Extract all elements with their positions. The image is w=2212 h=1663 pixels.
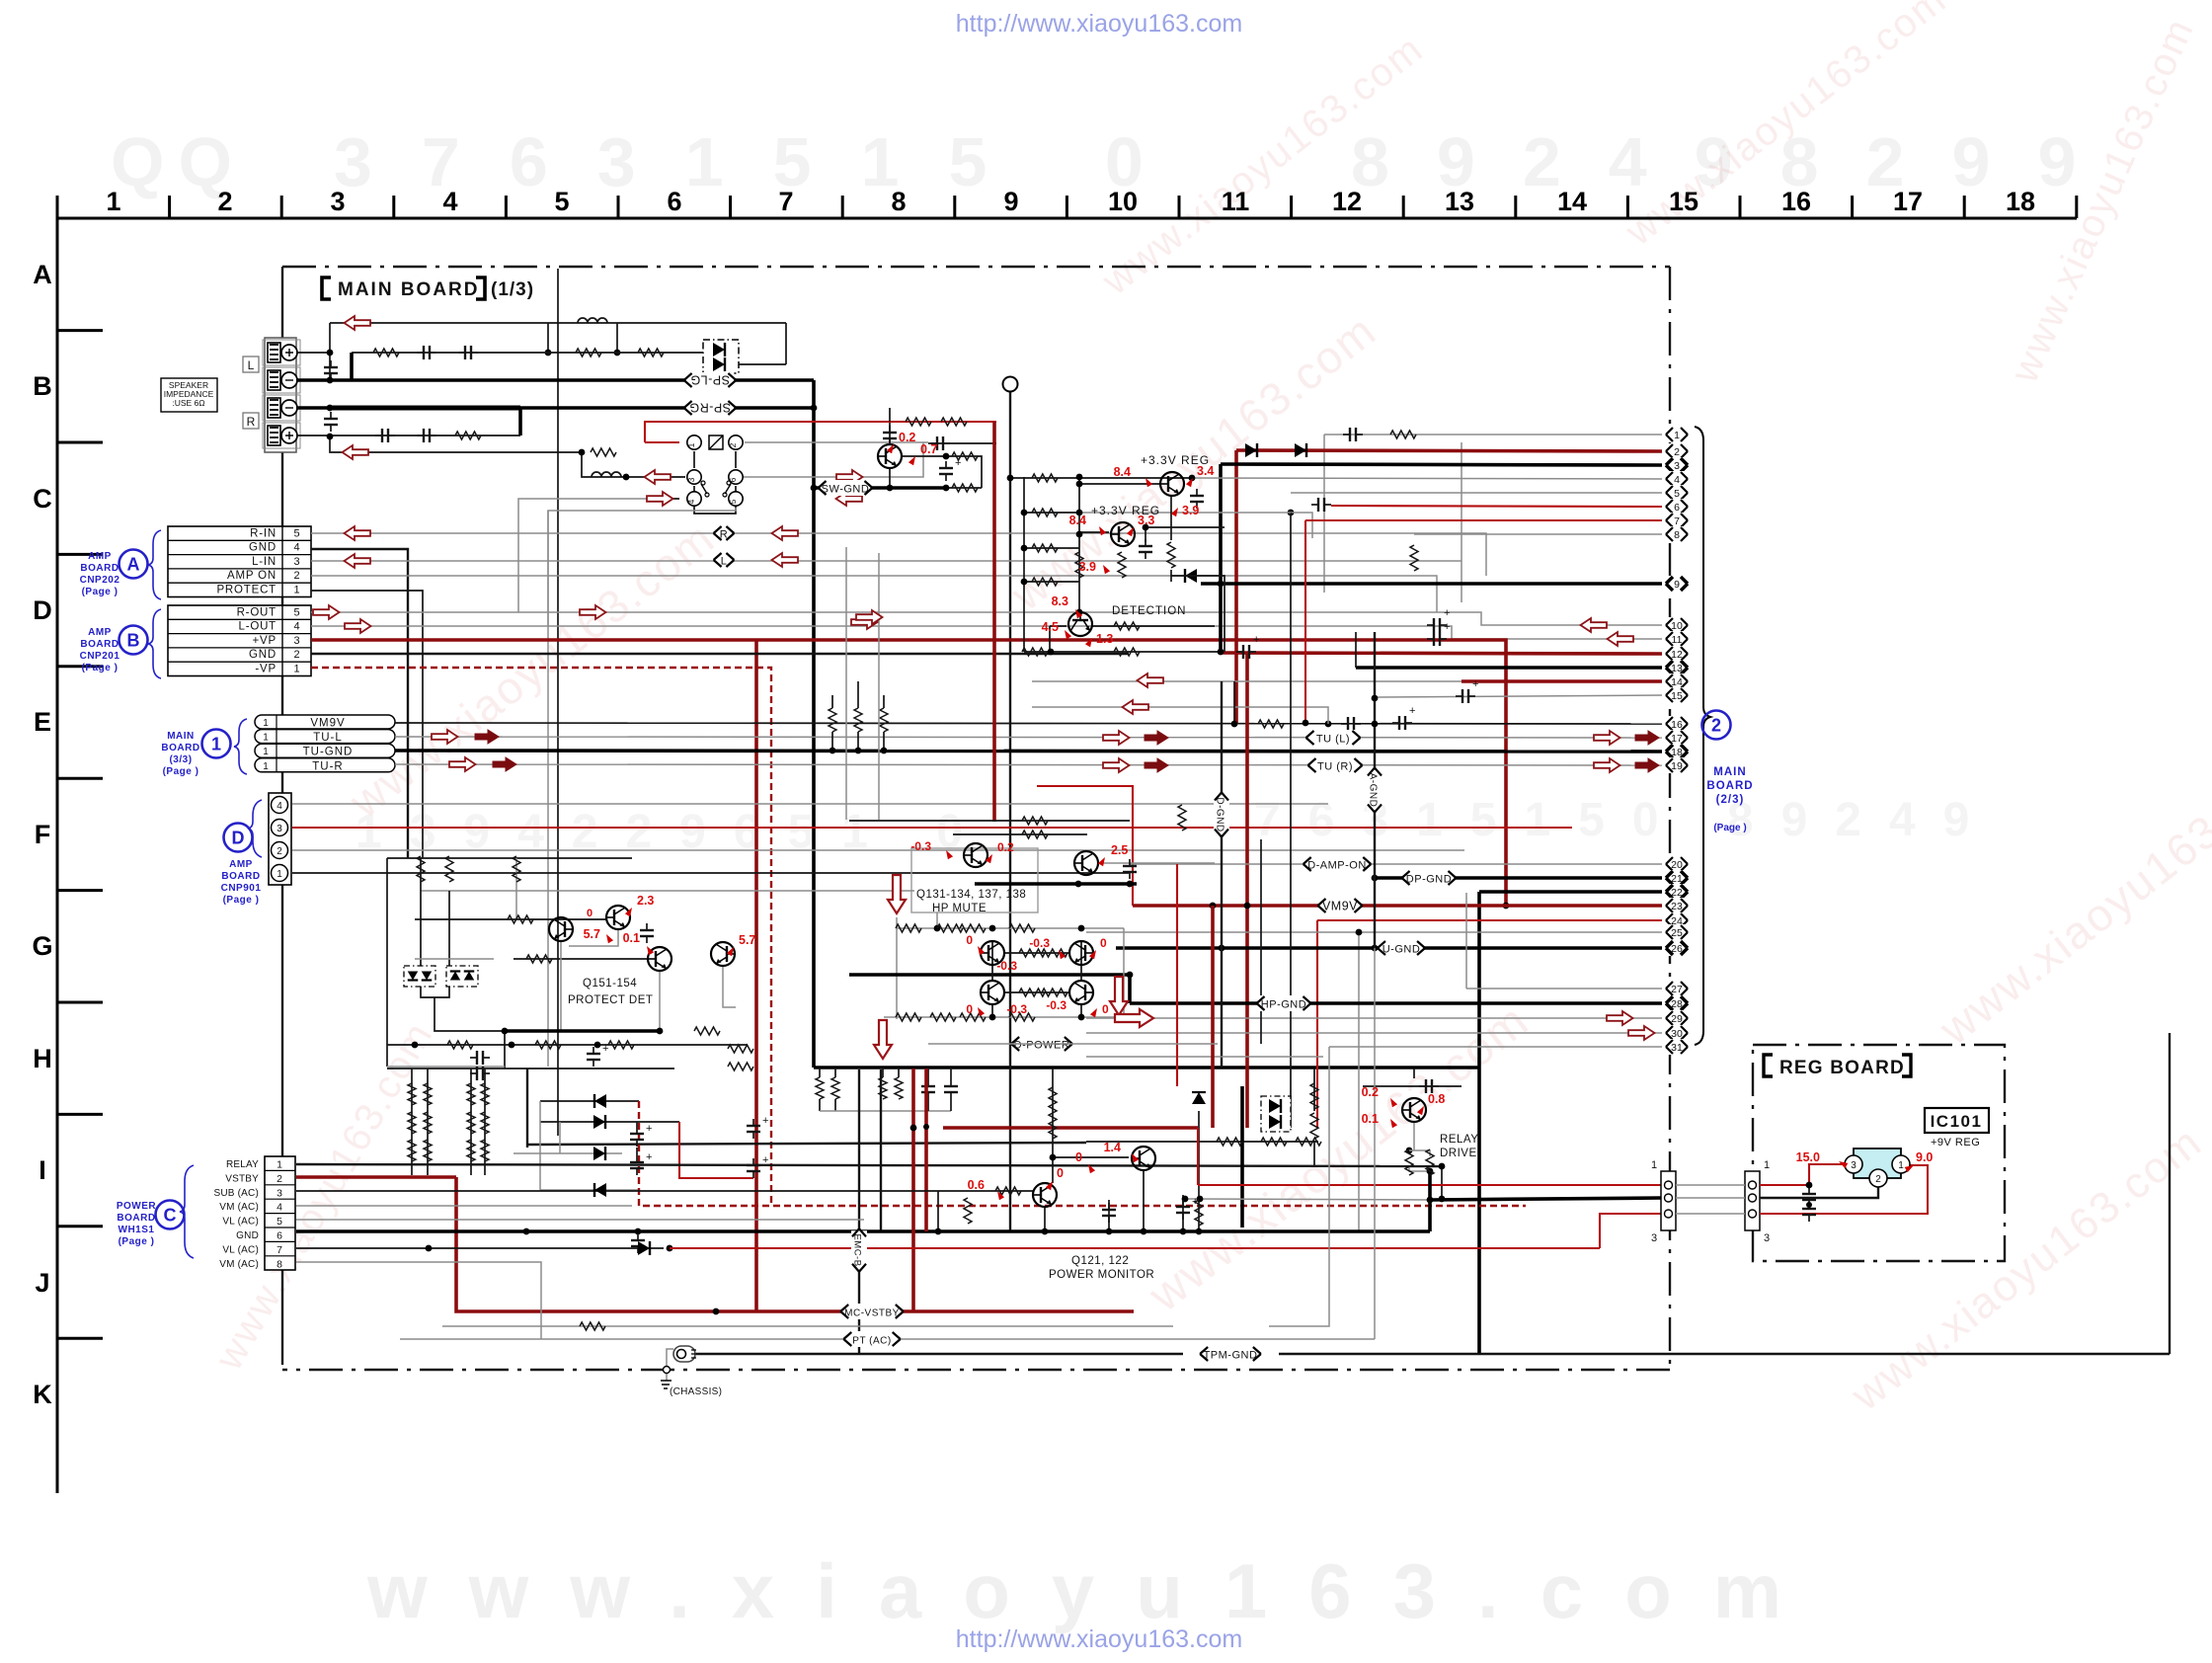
HP MUTE box outline	[911, 848, 1038, 912]
node	[426, 1245, 433, 1252]
terminal label R	[243, 413, 259, 429]
node	[545, 350, 552, 356]
wire	[350, 353, 354, 380]
resistor	[1261, 1138, 1287, 1146]
wire ladder left	[1023, 477, 1025, 652]
node TPM-GND	[1200, 1346, 1261, 1362]
wire D pin1	[292, 872, 1129, 874]
jack switch contacts	[701, 484, 731, 494]
wire	[1145, 526, 1224, 528]
svg-text:0.1: 0.1	[623, 931, 640, 945]
antenna terminal	[1003, 377, 1018, 392]
svg-text::USE 6Ω: :USE 6Ω	[172, 398, 204, 408]
wire (dark red)	[1211, 906, 1215, 1128]
wire	[1676, 1197, 1745, 1199]
resistor	[591, 448, 616, 456]
svg-text:14: 14	[1557, 187, 1587, 216]
node	[1076, 481, 1083, 488]
wire pin22	[1479, 890, 1662, 894]
wire	[434, 997, 505, 1031]
node	[1196, 1228, 1203, 1235]
diode	[593, 1115, 605, 1129]
MAIN BOARD title	[322, 277, 534, 300]
wire ladder	[427, 1069, 429, 1175]
svg-text:H: H	[33, 1044, 52, 1073]
svg-text:3: 3	[330, 187, 345, 216]
resistor	[1049, 1087, 1057, 1113]
svg-text:RELAY: RELAY	[1440, 1134, 1478, 1146]
resistor	[1009, 1013, 1035, 1021]
signal arrow	[1123, 700, 1149, 714]
wire	[991, 1005, 993, 1017]
node	[1127, 881, 1134, 888]
svg-text:TU (R): TU (R)	[1317, 761, 1353, 773]
svg-text:8: 8	[1674, 529, 1680, 541]
diode	[594, 1094, 606, 1108]
REG BOARD title	[1764, 1055, 1911, 1078]
wire	[659, 971, 661, 1031]
svg-text:D-GND: D-GND	[1215, 797, 1225, 831]
resistor	[1178, 805, 1186, 831]
svg-text:4: 4	[276, 1202, 282, 1214]
svg-text:2: 2	[276, 1173, 282, 1185]
wire	[1760, 1183, 1878, 1198]
svg-text:4: 4	[293, 621, 299, 633]
svg-text:2: 2	[1674, 446, 1680, 458]
wire	[1024, 651, 1220, 653]
wire	[582, 452, 685, 477]
svg-text:+: +	[646, 1151, 652, 1163]
node	[1007, 475, 1014, 482]
wire	[1123, 928, 1125, 1017]
svg-text:1.3: 1.3	[1096, 632, 1113, 646]
connector mark 2	[1702, 711, 1731, 740]
resistor	[829, 708, 836, 732]
flow arrow	[874, 1020, 892, 1059]
svg-text:26: 26	[1671, 943, 1683, 955]
svg-text:PROTECT DET: PROTECT DET	[568, 994, 653, 1006]
svg-text:0: 0	[1100, 936, 1107, 950]
node	[1182, 1196, 1189, 1203]
svg-text:19: 19	[1671, 760, 1683, 772]
svg-text:4: 4	[442, 187, 457, 216]
wire	[1079, 531, 1109, 533]
svg-text:5: 5	[276, 1216, 282, 1227]
node TU (R)	[1308, 757, 1363, 773]
svg-text:+VP: +VP	[253, 635, 276, 647]
signal arrow	[772, 553, 799, 567]
svg-text:POWER: POWER	[117, 1201, 157, 1212]
wire	[421, 985, 449, 997]
wire	[936, 912, 938, 928]
svg-text:1: 1	[263, 747, 269, 757]
svg-text:I: I	[39, 1155, 46, 1185]
svg-text:R-OUT: R-OUT	[237, 606, 276, 618]
wire GND	[311, 549, 408, 858]
svg-text:0.1: 0.1	[1362, 1112, 1379, 1126]
wire (red)	[1304, 520, 1306, 723]
wire	[330, 436, 582, 452]
resistor	[481, 1083, 489, 1105]
signal arrow	[836, 470, 863, 484]
node	[1180, 1228, 1187, 1235]
svg-text:TU-GND: TU-GND	[303, 747, 354, 758]
wire pin2 (dark red)	[1236, 450, 1662, 451]
transistor Q132	[1074, 851, 1098, 875]
signal arrow (filled)	[493, 757, 516, 771]
node	[502, 1028, 509, 1035]
svg-text:www.xiaoyu163.com: www.xiaoyu163.com	[366, 1547, 1823, 1634]
svg-text:D-AMP-ON: D-AMP-ON	[1307, 860, 1367, 872]
wire	[1052, 1069, 1054, 1183]
svg-text:3.9: 3.9	[1182, 504, 1199, 517]
svg-text:30: 30	[1671, 1028, 1683, 1040]
resistor	[424, 1140, 432, 1161]
wire	[1080, 1005, 1082, 1017]
wire	[849, 820, 1130, 822]
signal arrow	[851, 615, 878, 629]
node	[1427, 1197, 1434, 1204]
svg-text:11: 11	[1222, 187, 1250, 216]
svg-text:3: 3	[293, 556, 299, 568]
wire jack tip to SW	[745, 441, 928, 443]
svg-text:L: L	[248, 358, 255, 372]
wire pin24 (red)	[1317, 919, 1662, 921]
wire	[723, 966, 736, 1007]
wire pin14 (dark red)	[1461, 679, 1662, 683]
svg-text:3.4: 3.4	[1197, 464, 1214, 478]
wire (red)	[1176, 864, 1178, 1086]
wire pin15	[1375, 695, 1662, 697]
resistor	[481, 1112, 489, 1134]
node	[1218, 581, 1224, 588]
svg-text:8: 8	[891, 187, 906, 216]
svg-text:1: 1	[1674, 430, 1680, 441]
wire pin9	[1201, 582, 1662, 586]
connector CNP201	[168, 605, 311, 676]
svg-text:DRIVE: DRIVE	[1440, 1148, 1477, 1159]
wire	[1291, 513, 1312, 538]
wire (red)	[679, 1122, 753, 1178]
svg-text:16: 16	[1671, 719, 1683, 731]
svg-text:AMP: AMP	[88, 551, 112, 562]
diode	[450, 972, 461, 981]
signal arrow (filled)	[475, 730, 499, 744]
wire	[1032, 707, 1328, 724]
resistor	[445, 856, 453, 882]
wire	[420, 858, 422, 967]
node	[811, 485, 818, 492]
svg-text:R: R	[247, 415, 256, 429]
IC101 regulator	[1845, 1148, 1910, 1187]
connector mark A	[80, 550, 148, 598]
node	[829, 748, 836, 754]
capacitor	[930, 436, 950, 450]
wire MC-VSTBY (dark red)	[456, 1177, 1134, 1311]
resistor	[906, 418, 931, 426]
svg-text:C: C	[164, 1206, 177, 1226]
node	[1406, 1148, 1413, 1154]
diode pair box (muting)	[703, 340, 739, 373]
wire	[387, 857, 632, 859]
diode	[422, 972, 433, 981]
svg-text:28: 28	[1671, 998, 1683, 1010]
svg-text:+: +	[762, 1115, 768, 1127]
svg-text:3: 3	[276, 824, 282, 834]
svg-text:L: L	[721, 556, 728, 568]
node	[923, 1124, 929, 1130]
node	[1219, 945, 1225, 952]
connector MAIN BOARD 3/3 (1)	[255, 715, 395, 730]
svg-text:http://www.xiaoyu163.com: http://www.xiaoyu163.com	[956, 10, 1242, 38]
wire	[834, 1099, 836, 1111]
resistor	[1426, 1149, 1434, 1175]
transistor DETECTION	[1068, 612, 1092, 636]
resistor	[576, 349, 601, 356]
wire pin31	[1329, 1046, 1662, 1048]
resistor	[1019, 989, 1045, 996]
svg-text:21: 21	[1671, 873, 1683, 885]
wire	[518, 408, 522, 436]
wire	[1143, 1170, 1145, 1231]
wire pin5	[1291, 492, 1662, 494]
node	[1048, 649, 1055, 656]
wire	[849, 973, 1130, 977]
resistor	[467, 1112, 475, 1134]
svg-text:2: 2	[728, 442, 738, 447]
wire DETECTION	[1091, 625, 1215, 627]
svg-text:2: 2	[1711, 716, 1721, 736]
wire	[1477, 892, 1481, 1354]
svg-text:10: 10	[1108, 187, 1138, 216]
inductor	[578, 318, 607, 323]
svg-text:3: 3	[1651, 1232, 1657, 1244]
svg-text:BOARD: BOARD	[80, 563, 118, 574]
node	[1143, 524, 1149, 531]
wire	[950, 1068, 952, 1079]
wire protect det bus	[505, 1029, 660, 1033]
wire	[1004, 991, 1069, 993]
svg-text:5.7: 5.7	[739, 933, 755, 947]
svg-text:J: J	[35, 1268, 49, 1298]
MAIN BOARD border	[282, 266, 1670, 268]
node TU (L)	[1306, 730, 1361, 746]
svg-text:+: +	[762, 1154, 768, 1166]
signal arrow	[1138, 673, 1164, 687]
wire	[1260, 839, 1262, 1044]
svg-text:3: 3	[276, 1187, 282, 1199]
wire	[991, 940, 993, 980]
diode	[713, 343, 725, 356]
signal arrow	[345, 554, 371, 568]
wire (dark red)	[1234, 450, 1238, 724]
node	[1439, 1163, 1446, 1170]
svg-text:-0.3: -0.3	[996, 959, 1017, 973]
wire	[1358, 932, 1360, 1231]
svg-text:CNP901: CNP901	[221, 883, 262, 894]
svg-text:3: 3	[293, 635, 299, 647]
wire	[515, 858, 517, 919]
svg-text:AMP: AMP	[88, 627, 112, 638]
svg-text:+: +	[602, 1043, 608, 1055]
node	[1076, 474, 1083, 481]
wire (red)	[849, 421, 996, 423]
signal arrow (filled)	[1145, 758, 1168, 772]
signal arrow	[1607, 1011, 1633, 1025]
wire RELAY	[296, 1164, 1442, 1166]
svg-text:(Page ): (Page )	[82, 587, 118, 597]
svg-text:4: 4	[1674, 474, 1680, 486]
svg-text:4.5: 4.5	[1042, 620, 1059, 634]
wire	[1441, 1166, 1443, 1199]
resistor	[1032, 578, 1058, 586]
svg-text:DP-GND: DP-GND	[1406, 874, 1452, 886]
wire	[820, 1110, 951, 1112]
wire	[883, 695, 885, 708]
capacitor	[747, 1115, 768, 1139]
node	[1325, 721, 1332, 728]
svg-text:BOARD: BOARD	[161, 743, 199, 753]
node HP-GND	[1257, 995, 1311, 1011]
svg-text:GND: GND	[249, 542, 276, 554]
node	[1075, 881, 1082, 888]
svg-text:(3/3): (3/3)	[169, 754, 192, 765]
wire	[693, 451, 695, 468]
svg-text:F: F	[35, 820, 51, 849]
svg-text:MAIN: MAIN	[167, 731, 195, 742]
signal arrow	[645, 470, 671, 484]
resistor	[1032, 474, 1058, 482]
svg-text:16: 16	[1781, 187, 1811, 216]
signal arrow	[1608, 632, 1634, 646]
wire	[1233, 681, 1235, 724]
resistor	[608, 1041, 634, 1049]
svg-text:RELAY: RELAY	[226, 1159, 259, 1170]
node	[1372, 945, 1379, 952]
svg-text:A: A	[127, 555, 140, 575]
resistor	[694, 1027, 720, 1035]
wire -VP dashed loop	[639, 1101, 1526, 1206]
svg-text:12: 12	[1332, 187, 1362, 216]
connector mark D	[221, 824, 262, 907]
svg-text:0.8: 0.8	[1428, 1092, 1445, 1106]
node	[934, 925, 941, 932]
signal arrow	[1581, 618, 1608, 632]
resistor	[831, 1077, 839, 1099]
node	[1078, 1014, 1085, 1021]
connector mark C	[117, 1201, 185, 1248]
node	[327, 434, 334, 440]
resistor	[408, 1140, 416, 1161]
wire TU-L	[395, 737, 1662, 738]
wire	[883, 732, 885, 751]
node U-GND	[1378, 940, 1425, 956]
transistor Q122	[1132, 1147, 1155, 1170]
wire base	[1079, 483, 1159, 485]
svg-text:22: 22	[1671, 887, 1683, 899]
svg-text:37631515 0: 37631515 0	[334, 123, 1193, 200]
capacitor	[1419, 1079, 1439, 1093]
wire D pin4	[292, 803, 1328, 805]
resistor	[373, 349, 399, 356]
connector (REG side)	[1745, 1159, 1770, 1244]
wire	[878, 553, 880, 820]
wire	[1170, 570, 1172, 582]
wire	[1050, 625, 1066, 627]
svg-text:2.3: 2.3	[637, 894, 654, 908]
wire pin21 DP-GND	[1375, 876, 1662, 880]
svg-text:(Page ): (Page )	[82, 663, 118, 673]
svg-text:0: 0	[966, 1002, 973, 1016]
svg-text:6: 6	[667, 187, 681, 216]
node	[667, 1245, 673, 1252]
resistor	[879, 1077, 887, 1099]
svg-text:DETECTION: DETECTION	[1112, 605, 1186, 617]
wire	[1323, 435, 1325, 593]
capacitor	[1427, 607, 1450, 632]
flow arrow	[888, 875, 906, 913]
wire	[1313, 1141, 1315, 1165]
resistor	[535, 1041, 561, 1049]
svg-text:+: +	[1444, 621, 1450, 633]
svg-text:11: 11	[1672, 634, 1683, 646]
svg-text:18: 18	[2006, 187, 2035, 216]
svg-text:3.3: 3.3	[1138, 514, 1154, 527]
wire GND2	[311, 653, 1129, 655]
resistor	[1114, 622, 1140, 630]
wire (dark red)	[911, 1069, 915, 1311]
svg-text:1: 1	[263, 761, 269, 772]
wire D-POWER	[928, 1043, 1218, 1045]
svg-text:L-IN: L-IN	[252, 556, 276, 568]
svg-text:www.xiaoyu163.com: www.xiaoyu163.com	[1929, 739, 2212, 1056]
wire pin27	[1466, 988, 1662, 990]
wire to REG	[1430, 1198, 1662, 1200]
wire	[1185, 1199, 1430, 1200]
node L	[714, 552, 735, 568]
resistor	[424, 1083, 432, 1105]
node	[1427, 1168, 1434, 1175]
wire	[386, 858, 388, 1067]
transistor (SW mute)	[878, 444, 902, 468]
signal arrow	[345, 316, 371, 330]
wire	[927, 1099, 929, 1111]
resistor	[728, 1063, 753, 1070]
svg-text:0: 0	[1102, 1002, 1109, 1016]
node	[1021, 545, 1028, 552]
node	[887, 485, 894, 492]
wire	[400, 1338, 1375, 1340]
node	[811, 405, 818, 412]
wire	[528, 1143, 1086, 1145]
svg-text:VM9V: VM9V	[1322, 900, 1358, 913]
svg-text:L-OUT: L-OUT	[239, 621, 277, 633]
dual diode box	[404, 966, 435, 987]
svg-text:SUB (AC): SUB (AC)	[214, 1188, 260, 1199]
signal arrow	[856, 610, 883, 624]
svg-text:8.4: 8.4	[1069, 514, 1086, 527]
wire	[739, 363, 786, 365]
node	[1127, 972, 1134, 979]
svg-text:23: 23	[1671, 901, 1683, 912]
capacitor	[1343, 428, 1363, 441]
capacitor	[417, 346, 436, 359]
svg-text:5: 5	[1674, 488, 1680, 500]
wire	[1128, 975, 1132, 1003]
wire	[735, 451, 737, 468]
diode	[1269, 1115, 1281, 1129]
wire	[352, 352, 726, 354]
